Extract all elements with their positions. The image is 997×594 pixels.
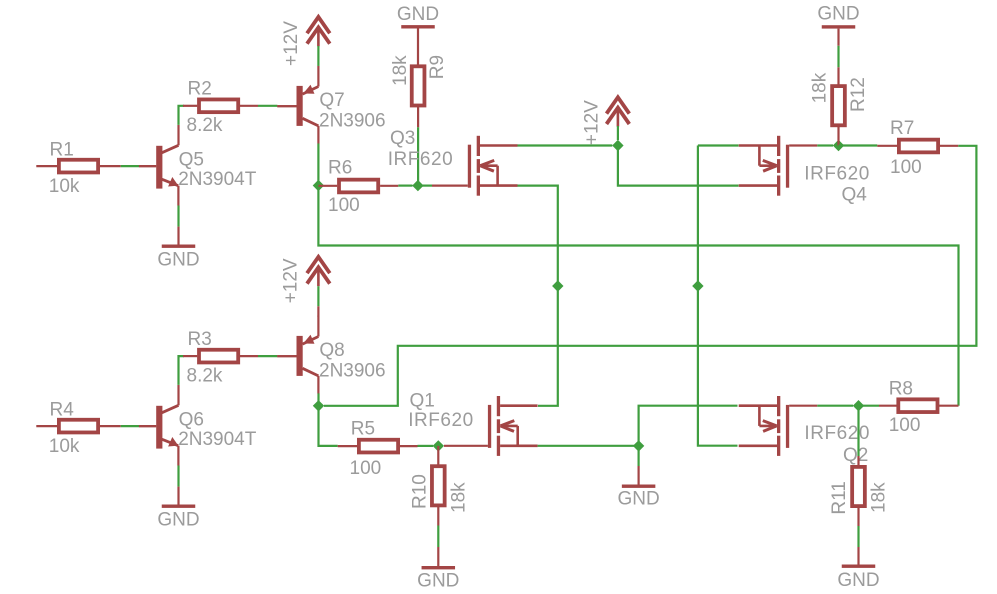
svg-text:R3: R3 <box>188 329 212 350</box>
svg-text:R2: R2 <box>188 79 212 100</box>
wire Q4 gate pin <box>789 144 817 146</box>
svg-text:8.2k: 8.2k <box>187 365 223 386</box>
wire Q5 emitter to GND net <box>177 206 179 227</box>
resistor R8 <box>898 399 937 412</box>
svg-text:18k: 18k <box>810 72 831 103</box>
wire R10 pin 1 stub <box>437 446 439 465</box>
wire R3 pin 2 stub <box>240 355 258 357</box>
wire R2 to Q7 base net <box>258 105 277 107</box>
wire R9 to gate junction net <box>417 127 419 185</box>
supply +12V symbol (bridge) <box>607 97 630 126</box>
ground GND (Q5 emitter) <box>162 245 196 248</box>
wire input IN2 to R4 <box>36 425 57 427</box>
svg-text:Q6: Q6 <box>179 410 204 431</box>
wire R11 pin 2 stub <box>857 508 859 526</box>
wire +12V to Q7 emitter net <box>317 46 319 66</box>
transistor Q6 2N3904T (NPN) <box>139 385 179 466</box>
svg-text:10k: 10k <box>49 436 80 457</box>
svg-text:R9: R9 <box>427 55 448 79</box>
wire Q3 gate pin <box>432 185 468 187</box>
ground GND (Q1/Q2 sources) <box>622 485 656 488</box>
svg-text:18k: 18k <box>868 482 889 513</box>
ground GND (Q6 emitter) <box>162 505 196 508</box>
node junction Q7 collector / R6 <box>313 180 324 191</box>
svg-text:Q7: Q7 <box>319 90 344 111</box>
wire R5 pin 2 stub <box>400 445 418 447</box>
wire GND pin (R10) <box>437 547 439 566</box>
supply +12V symbol (Q8 emitter) <box>307 257 330 286</box>
resistor R6 <box>339 180 378 193</box>
wire R4 to Q6 base net <box>121 425 139 427</box>
resistor R9 <box>412 66 425 105</box>
node junction output B <box>692 280 703 291</box>
wire Q4 gate to junction net <box>817 144 833 146</box>
wire R1 pin 2 stub <box>100 165 121 167</box>
wire output B net Q4 source to Q2 drain <box>698 146 738 446</box>
wire Q5 collector to R2 net <box>179 106 185 125</box>
wire R2 pin 2 stub <box>240 105 258 107</box>
svg-text:+12V: +12V <box>280 258 301 303</box>
wire GND to R12 net <box>837 46 839 68</box>
transistor Q4 IRF620 (N-MOSFET, mirrored) <box>739 136 790 196</box>
resistor R5 <box>359 440 398 453</box>
node junction R5 / R10 / Q1 gate <box>433 440 444 451</box>
wire R3 pin 1 stub <box>183 355 197 357</box>
ground GND (above R12) <box>822 25 856 28</box>
resistor R1 <box>59 160 98 173</box>
svg-text:Q4: Q4 <box>842 184 868 205</box>
wire R4 pin 2 stub <box>100 425 121 427</box>
wire Q7 base pin <box>277 105 296 107</box>
svg-text:R1: R1 <box>50 140 74 161</box>
svg-text:R5: R5 <box>351 418 375 439</box>
transistor Q3 IRF620 (N-MOSFET) <box>468 136 518 196</box>
svg-text:18k: 18k <box>390 55 411 86</box>
supply +12V symbol (Q7 emitter) <box>307 17 330 46</box>
transistor Q1 IRF620 (N-MOSFET) <box>488 396 538 456</box>
svg-text:GND: GND <box>417 571 459 592</box>
wire Q6 emitter to GND net <box>177 466 179 487</box>
wire R5 to gate junction net <box>418 445 434 447</box>
svg-text:Q1: Q1 <box>410 390 435 411</box>
wire junction to R8 net <box>859 405 880 407</box>
svg-text:IRF620: IRF620 <box>408 410 473 431</box>
svg-text:100: 100 <box>328 195 360 216</box>
wire R6 to gate junction net <box>398 185 412 187</box>
svg-text:18k: 18k <box>449 482 470 513</box>
svg-text:Q8: Q8 <box>319 340 344 361</box>
svg-text:Q5: Q5 <box>179 150 204 171</box>
wire R7 pin 2 stub <box>939 145 959 147</box>
svg-text:GND: GND <box>617 489 659 510</box>
svg-text:Q3: Q3 <box>390 128 415 149</box>
resistor R4 <box>59 420 98 433</box>
ground GND (below R11) <box>842 565 876 568</box>
ground GND (above R9) <box>401 25 435 28</box>
svg-text:100: 100 <box>890 157 922 178</box>
svg-text:R6: R6 <box>328 158 352 179</box>
wire Q2 source to GND node net <box>639 406 738 446</box>
svg-text:+12V: +12V <box>581 100 602 145</box>
svg-text:2N3904T: 2N3904T <box>178 169 257 190</box>
svg-text:2N3904T: 2N3904T <box>178 429 257 450</box>
node junction R6 / R9 / Q3 gate <box>412 180 423 191</box>
wire output A net Q3 source to Q1 drain <box>518 186 558 406</box>
svg-text:IRF620: IRF620 <box>804 163 869 184</box>
wire GND pin (R11) <box>857 547 859 565</box>
transistor Q5 2N3904T (NPN) <box>139 125 179 206</box>
svg-text:Q2: Q2 <box>843 445 868 466</box>
transistor Q8 2N3906 (PNP) <box>277 316 318 394</box>
wire GND to R9 pin <box>417 29 419 66</box>
wire Q1 gate pin <box>444 445 488 447</box>
wire R7 pin 1 stub <box>877 145 898 147</box>
svg-text:R4: R4 <box>50 400 75 421</box>
svg-text:10k: 10k <box>49 176 80 197</box>
wire GND pin (Q5) <box>177 227 179 245</box>
wire Q8 emitter pin extension <box>317 306 319 316</box>
wire input IN1 to R1 <box>36 165 57 167</box>
wire R8 pin 2 stub <box>939 405 959 407</box>
transistor Q7 2N3906 (PNP) <box>277 66 318 144</box>
svg-text:2N3906: 2N3906 <box>319 360 386 381</box>
wire R11 pin 1 stub <box>857 456 859 466</box>
resistor R10 <box>432 466 445 505</box>
wire net B R7 around to Q8 collector <box>324 146 976 406</box>
wire Q1 source to GND node net <box>538 445 639 447</box>
wire Q3 drain to +12V net <box>518 144 613 146</box>
svg-text:IRF620: IRF620 <box>804 423 869 444</box>
node junction Q1/Q2 source GND <box>633 440 644 451</box>
svg-text:100: 100 <box>350 458 382 479</box>
wire Q6 collector to R3 net <box>179 356 185 385</box>
svg-text:GND: GND <box>157 510 199 531</box>
resistor R2 <box>199 99 238 112</box>
wire Q8 base pin <box>277 355 296 357</box>
wire net A Q7 collector across to R8 <box>318 186 958 406</box>
wire R5 pin 1 stub <box>338 445 357 447</box>
svg-text:R8: R8 <box>889 379 913 400</box>
wire Q2 gate pin <box>789 405 817 407</box>
ground GND (below R10) <box>422 566 456 569</box>
wire junction to R7 net <box>839 144 878 146</box>
svg-text:GND: GND <box>837 570 879 591</box>
wire +12V to Q8 emitter net <box>317 286 319 306</box>
svg-text:R10: R10 <box>410 474 431 509</box>
wire Q8 collector to node <box>317 393 319 405</box>
wire GND pin (Q6) <box>177 487 179 505</box>
wire Q7 collector down to R6 tap <box>317 144 319 186</box>
wire R8 pin 1 stub <box>879 405 897 407</box>
wire Q5 base pin <box>139 165 156 167</box>
wire R12 pin 2 to junction <box>837 126 839 145</box>
wire junction to R11 net <box>857 406 859 456</box>
svg-text:100: 100 <box>889 415 921 436</box>
wire Q8 node down to R5 net <box>319 406 338 446</box>
svg-text:R12: R12 <box>848 77 869 112</box>
node junction output A <box>552 280 563 291</box>
svg-text:8.2k: 8.2k <box>187 115 223 136</box>
wire +12V stem net <box>617 126 619 140</box>
svg-text:+12V: +12V <box>281 21 302 66</box>
resistor R11 <box>852 467 865 506</box>
svg-text:GND: GND <box>397 4 439 25</box>
wire R12 pin 1 stub <box>837 67 839 85</box>
wire +12V to Q4 drain net <box>618 146 739 186</box>
wire R1 to Q5 base net <box>121 165 139 167</box>
wire R6 pin 1 stub <box>318 185 337 187</box>
node junction R8 / R11 / Q2 gate <box>853 400 864 411</box>
svg-text:GND: GND <box>157 250 199 271</box>
wire GND pin (R12) <box>837 29 839 46</box>
wire R9 pin 2 stub <box>417 107 419 128</box>
svg-text:2N3906: 2N3906 <box>319 110 386 131</box>
wire Q4 source net <box>698 144 739 146</box>
svg-text:IRF620: IRF620 <box>388 149 453 170</box>
wire R11 to GND net <box>857 526 859 547</box>
svg-text:R11: R11 <box>829 481 850 514</box>
wire R2 pin 1 stub <box>183 105 197 107</box>
svg-text:R7: R7 <box>890 118 914 139</box>
node junction +12V / Q3 drain / Q4 drain <box>612 140 623 151</box>
wire R10 pin 2 stub <box>437 507 439 526</box>
wire R3 to Q8 base net <box>258 355 277 357</box>
transistor Q2 IRF620 (N-MOSFET, mirrored) <box>739 396 790 456</box>
node junction Q8 collector <box>313 400 324 411</box>
wire R6 pin 2 stub <box>380 185 398 187</box>
svg-text:GND: GND <box>817 4 859 25</box>
resistor R3 <box>199 350 238 363</box>
node junction R12 / R7 / Q4 gate <box>833 140 844 151</box>
wire GND node stub <box>637 446 639 466</box>
wire R10 to GND net <box>437 526 439 548</box>
wire GND pin (sources) <box>637 466 639 485</box>
wire gate junction to Q3 gate net <box>418 185 432 187</box>
wire Q6 base pin <box>139 425 156 427</box>
resistor R12 <box>832 86 845 125</box>
wire Q2 gate to junction net <box>817 405 853 407</box>
resistor R7 <box>899 140 938 153</box>
